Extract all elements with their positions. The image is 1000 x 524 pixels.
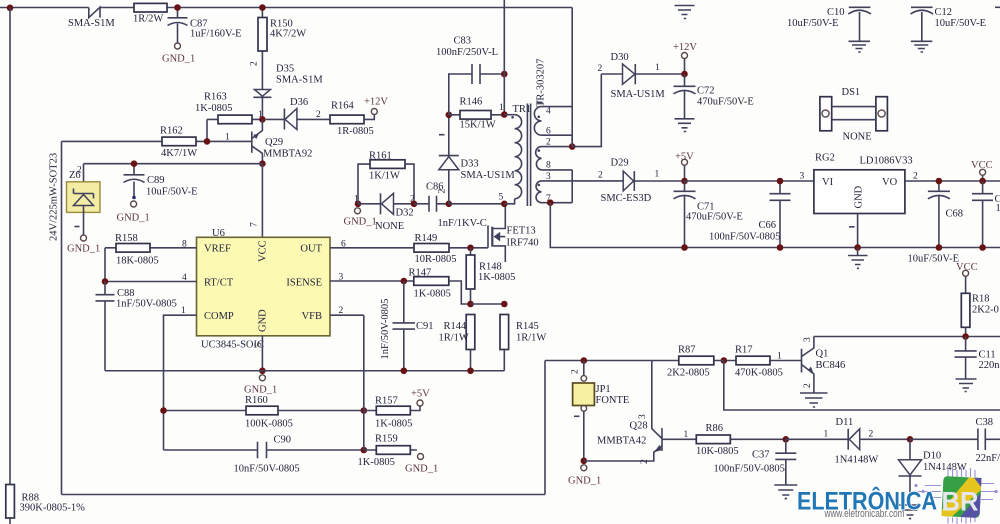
svg-text:OUT: OUT xyxy=(300,244,322,255)
connector DS1 NONE xyxy=(820,87,888,143)
ground GND_1 at R159 xyxy=(405,454,438,475)
junction R162/R163 xyxy=(204,138,211,145)
diode D10 1N4148W xyxy=(899,439,967,518)
junction TR1 pins 2/6 node xyxy=(569,143,576,150)
junction C68 bottom xyxy=(936,244,943,251)
svg-text:4K7/1W: 4K7/1W xyxy=(161,148,197,159)
capacitor C38 22nF xyxy=(910,417,1000,464)
svg-text:LD1086V33: LD1086V33 xyxy=(860,156,913,167)
svg-text:GND_1: GND_1 xyxy=(568,476,601,487)
svg-text:R158: R158 xyxy=(115,233,138,244)
resistor R17 470K-0805 xyxy=(724,345,802,379)
regulator RG2 LD1086V33 xyxy=(800,153,919,248)
svg-text:R163: R163 xyxy=(204,92,227,103)
capacitor C67 at right edge xyxy=(972,181,1000,248)
resistor R161 1K/1W xyxy=(354,151,415,205)
svg-text:1R/2W: 1R/2W xyxy=(133,14,163,25)
svg-text:2K2-0805: 2K2-0805 xyxy=(667,368,710,379)
resistor R148 1K-0805 xyxy=(466,248,515,304)
svg-text:JP1: JP1 xyxy=(596,384,611,395)
wire Q29 to U6 VCC pin 7 xyxy=(261,164,263,238)
svg-text:R145: R145 xyxy=(516,321,539,332)
junction +5V node xyxy=(681,178,688,185)
svg-text:3: 3 xyxy=(546,172,551,182)
junction JP1 top xyxy=(581,357,588,364)
svg-text:470K-0805: 470K-0805 xyxy=(735,368,783,379)
svg-text:1N4148W: 1N4148W xyxy=(835,455,879,466)
svg-text:+12V: +12V xyxy=(364,97,388,108)
svg-text:C89: C89 xyxy=(147,175,165,186)
svg-text:GND_1: GND_1 xyxy=(244,385,277,396)
svg-text:+5V: +5V xyxy=(675,152,694,163)
capacitor C71 470uF/50V-E xyxy=(674,181,743,248)
svg-text:TR-303207: TR-303207 xyxy=(536,59,547,107)
svg-text:VCC: VCC xyxy=(971,160,993,171)
svg-text:2: 2 xyxy=(803,383,813,388)
wire RG2 output row xyxy=(905,180,1000,182)
svg-text:3: 3 xyxy=(339,273,344,283)
ground under C72 xyxy=(675,119,695,132)
svg-text:SMA-US1M: SMA-US1M xyxy=(461,170,516,181)
svg-text:10uF/50V-E: 10uF/50V-E xyxy=(146,187,198,198)
svg-text:2: 2 xyxy=(571,369,581,374)
svg-text:FONTE: FONTE xyxy=(596,395,630,406)
svg-text:R18: R18 xyxy=(972,294,990,305)
svg-text:R147: R147 xyxy=(409,268,432,279)
resistor R162 4K7/1W xyxy=(62,126,252,160)
diode D33 SMA-US1M xyxy=(439,115,516,204)
svg-text:470uF/50V-E: 470uF/50V-E xyxy=(686,212,743,223)
svg-text:15K/1W: 15K/1W xyxy=(460,120,496,131)
junction R150 top xyxy=(259,4,266,11)
capacitor C10 10uF/50V-E xyxy=(787,7,871,52)
junction RG2 gnd bottom xyxy=(854,244,861,251)
svg-text:2: 2 xyxy=(339,306,344,316)
svg-text:8: 8 xyxy=(182,240,187,250)
capacitor C89 xyxy=(117,164,198,224)
wire bottom long bus xyxy=(62,494,546,496)
svg-text:1uF/160V-E: 1uF/160V-E xyxy=(190,29,242,40)
svg-text:D36: D36 xyxy=(290,97,308,108)
junction Q29 collector node xyxy=(259,160,266,167)
wire U6 GND pin 5 down xyxy=(261,336,263,371)
junction ISENSE/C91 xyxy=(401,278,408,285)
junction R148/R144 node xyxy=(467,301,474,308)
junction R149/R148 gate node xyxy=(467,245,474,252)
svg-text:R144: R144 xyxy=(444,321,468,332)
svg-text:22nF/: 22nF/ xyxy=(976,453,1000,464)
svg-text:2: 2 xyxy=(250,61,260,66)
junction +12V node xyxy=(681,71,688,78)
diode D30 SMA-US1M xyxy=(598,52,685,100)
svg-text:R149: R149 xyxy=(415,233,438,244)
svg-text:VREF: VREF xyxy=(204,244,231,255)
wire R163 left to R162 junction xyxy=(206,119,208,141)
diode D34 top-left (cut by edge) xyxy=(89,7,100,17)
junction R87/R17 node xyxy=(721,357,728,364)
junction top-left corner xyxy=(7,5,14,12)
svg-text:IRF740: IRF740 xyxy=(507,238,539,249)
svg-text:VCC: VCC xyxy=(956,262,978,273)
wire left vertical rail xyxy=(9,8,11,524)
svg-text:2: 2 xyxy=(640,459,650,464)
resistor R159 1K-0805 xyxy=(358,434,418,469)
svg-text:R161: R161 xyxy=(369,151,392,162)
svg-text:C68: C68 xyxy=(946,209,964,220)
junction D32 anode node xyxy=(355,201,362,208)
svg-text:3: 3 xyxy=(800,172,805,182)
svg-text:VI: VI xyxy=(822,177,834,188)
svg-text:1K-0805: 1K-0805 xyxy=(478,272,515,283)
capacitor C88 1nF/50V-0805 xyxy=(96,282,177,371)
ground GND_1 under JP1 xyxy=(568,465,601,487)
wire C89 row to Q29 xyxy=(84,163,263,165)
svg-text:2: 2 xyxy=(869,430,874,440)
wire U6 pin 3 ISENSE row xyxy=(330,280,414,282)
capacitor C72 470uF/50V-E xyxy=(674,74,754,119)
transistor Q28 MMBTA42 xyxy=(584,361,662,465)
junction RT/CT node xyxy=(102,278,109,285)
svg-text:SMC-ES3D: SMC-ES3D xyxy=(601,193,652,204)
watermark ELETRONICA BR logo xyxy=(797,467,998,524)
svg-text:MMBTA42: MMBTA42 xyxy=(597,436,646,447)
svg-text:10nF/50V-0805: 10nF/50V-0805 xyxy=(234,464,300,475)
junction C66 bottom xyxy=(777,244,784,251)
svg-text:D35: D35 xyxy=(276,64,294,75)
svg-text:NONE: NONE xyxy=(375,221,404,232)
svg-text:COMP: COMP xyxy=(204,311,234,322)
svg-text:2: 2 xyxy=(913,172,918,182)
svg-text:R87: R87 xyxy=(678,345,696,356)
svg-text:6: 6 xyxy=(341,240,346,250)
svg-text:18K-0805: 18K-0805 xyxy=(116,256,159,267)
svg-text:C37: C37 xyxy=(752,450,770,461)
svg-text:NONE: NONE xyxy=(843,132,872,143)
svg-text:GND: GND xyxy=(854,185,865,208)
svg-text:D33: D33 xyxy=(461,159,479,170)
wire C86 node to TR1 pin5 xyxy=(449,203,505,205)
resistor R164 1R-0805 xyxy=(330,101,374,138)
wire R158 left down to RT/CT node xyxy=(104,248,106,282)
power VCC terminal at R18 xyxy=(956,262,978,293)
wire left vertical x61 xyxy=(61,141,63,494)
op-amp U6 UC3845-SOIC controller xyxy=(197,228,331,351)
svg-text:SMA-S1M: SMA-S1M xyxy=(68,18,115,29)
svg-text:+12V: +12V xyxy=(673,42,697,53)
svg-text:1R/1W: 1R/1W xyxy=(439,333,469,344)
svg-text:220n: 220n xyxy=(979,360,1000,371)
svg-text:24V/225mW-SOT23: 24V/225mW-SOT23 xyxy=(49,153,60,241)
svg-text:1R-0805: 1R-0805 xyxy=(337,126,374,137)
transistor FET13 IRF740 xyxy=(488,204,539,262)
diode D29 SMC-ES3D xyxy=(598,158,685,205)
svg-text:R146: R146 xyxy=(460,97,483,108)
svg-text:100nF/250V-L: 100nF/250V-L xyxy=(436,47,498,58)
svg-text:GND_1: GND_1 xyxy=(117,213,150,224)
wire pin2 node to D30 xyxy=(572,74,601,147)
svg-text:DS1: DS1 xyxy=(842,87,861,98)
resistor R1A 1R/2W on top rail xyxy=(133,3,167,24)
resistor R149 10R-0805 xyxy=(414,233,488,265)
svg-text:5: 5 xyxy=(254,342,264,347)
svg-text:GND: GND xyxy=(258,309,269,332)
svg-text:1K/1W: 1K/1W xyxy=(369,171,400,182)
capacitor C11 220nF xyxy=(955,337,1000,392)
svg-text:C90: C90 xyxy=(274,435,292,446)
svg-text:C38: C38 xyxy=(976,417,994,428)
capacitor C87 xyxy=(168,8,242,50)
svg-text:7: 7 xyxy=(250,222,260,227)
wire U6 pin 1 COMP xyxy=(164,315,197,450)
power +12V terminal at R164 xyxy=(364,97,388,115)
capacitor C37 100nF/50V-0805 xyxy=(714,439,798,498)
junction TR1 pin 1 xyxy=(501,111,508,118)
wire top rail drop to TR1 pin4 xyxy=(571,8,573,147)
junction JP1 bottom / Q28 emitter xyxy=(581,458,588,465)
svg-text:SMA-S1M: SMA-S1M xyxy=(276,75,323,86)
svg-text:GND_1: GND_1 xyxy=(344,217,377,228)
svg-text:SMA-US1M: SMA-US1M xyxy=(611,89,666,100)
svg-text:2: 2 xyxy=(316,110,321,120)
junction R18/C11 node xyxy=(962,333,969,340)
capacitor C91 1nF/50V-0805 xyxy=(380,281,434,371)
power +5V terminal at R157 xyxy=(411,389,430,407)
resistor R144 1R/1W xyxy=(439,315,475,371)
svg-text:1: 1 xyxy=(996,203,1000,214)
resistor R86 10K-0805 xyxy=(662,423,786,457)
ground symbol top right of transformer xyxy=(675,6,695,19)
svg-text:C12: C12 xyxy=(935,7,953,18)
transformer TR1 TR-303207 xyxy=(499,59,624,206)
power +12V terminal xyxy=(673,42,697,74)
svg-text:GND_1: GND_1 xyxy=(162,54,195,65)
svg-text:1nF/50V-0805: 1nF/50V-0805 xyxy=(380,299,391,360)
resistor R147 1K-0805 xyxy=(409,268,471,305)
wire feedback row to JP1 xyxy=(545,360,651,362)
svg-text:4: 4 xyxy=(546,107,551,117)
wire VFB column xyxy=(363,315,365,450)
svg-text:FET13: FET13 xyxy=(507,226,536,237)
capacitor C86 1nF/1KV-C xyxy=(414,182,487,230)
wire R87 node down to right bus xyxy=(724,361,1000,411)
capacitor C66 100nF/50V-0805 xyxy=(709,181,791,248)
svg-text:RT/CT: RT/CT xyxy=(204,277,234,288)
svg-text:1nF/1KV-C: 1nF/1KV-C xyxy=(438,218,487,229)
junction TR1 pin 5 / FET drain node xyxy=(501,201,508,208)
junction C87 top xyxy=(174,4,181,11)
svg-text:4: 4 xyxy=(182,273,187,283)
svg-text:D29: D29 xyxy=(611,158,629,169)
svg-text:GND_1: GND_1 xyxy=(67,244,100,255)
svg-text:10uF/50V-E: 10uF/50V-E xyxy=(935,18,987,29)
wire U6 pin 4 RT/CT xyxy=(105,281,197,283)
svg-text:390K-0805-1%: 390K-0805-1% xyxy=(20,503,86,514)
capacitor C12 10uF/50V-E xyxy=(911,7,987,52)
svg-text:+5V: +5V xyxy=(411,389,430,400)
resistor R160 100K-0805 xyxy=(245,395,364,430)
junction C89 top xyxy=(131,160,138,167)
wire bottom bus under U6 xyxy=(105,370,504,372)
svg-text:BC846: BC846 xyxy=(816,360,846,371)
wire Q1 collector row xyxy=(814,336,1000,338)
wire long vertical from bottom bus xyxy=(544,361,546,495)
svg-text:1: 1 xyxy=(655,63,660,73)
junction R161 right / C86 left xyxy=(411,201,418,208)
svg-text:1: 1 xyxy=(181,306,186,316)
svg-text:1nF/50V-0805: 1nF/50V-0805 xyxy=(116,299,177,310)
svg-text:4K7/2W: 4K7/2W xyxy=(270,29,306,40)
svg-text:10R-0805: 10R-0805 xyxy=(415,254,457,265)
svg-text:Q28: Q28 xyxy=(630,421,648,432)
junction C68 top xyxy=(936,178,943,185)
svg-text:BR: BR xyxy=(942,487,979,517)
svg-text:C66: C66 xyxy=(759,220,777,231)
svg-text:VO: VO xyxy=(882,177,898,188)
svg-text:R164: R164 xyxy=(331,101,355,112)
svg-text:C83: C83 xyxy=(454,36,472,47)
diode D36 SMA-S1M xyxy=(266,97,330,130)
svg-text:5: 5 xyxy=(499,193,504,203)
svg-text:2: 2 xyxy=(598,64,603,74)
svg-text:1: 1 xyxy=(499,103,504,113)
resistor R88 390K-0805-1% xyxy=(6,485,85,519)
svg-text:R148: R148 xyxy=(479,262,502,273)
svg-text:C88: C88 xyxy=(117,288,135,299)
svg-text:1: 1 xyxy=(824,430,829,440)
svg-text:1: 1 xyxy=(225,133,230,143)
svg-text:TR1: TR1 xyxy=(513,104,532,115)
svg-text:10uF/50V-E: 10uF/50V-E xyxy=(908,254,960,265)
svg-text:100nF/50V-0805: 100nF/50V-0805 xyxy=(714,464,785,475)
svg-text:1N4148W: 1N4148W xyxy=(923,462,967,473)
svg-text:1K-0805: 1K-0805 xyxy=(375,419,412,430)
resistor R145 1R/1W xyxy=(500,315,546,371)
svg-text:2: 2 xyxy=(77,166,82,176)
junction node D35/D36/R163/Q29 xyxy=(259,116,266,123)
transistor Q1 BC846 xyxy=(802,337,846,393)
svg-text:www.eletronicabr.com: www.eletronicabr.com xyxy=(824,508,905,520)
junction R160/VFB column xyxy=(361,407,368,414)
svg-text:R157: R157 xyxy=(375,396,398,407)
svg-text:1: 1 xyxy=(777,352,782,362)
svg-text:470uF/50V-E: 470uF/50V-E xyxy=(697,97,754,108)
resistor R146 15K/1W xyxy=(449,97,505,131)
zener Z6 24V/225mW-SOT23 xyxy=(49,153,101,255)
resistor R150 4K7/2W xyxy=(250,8,307,90)
svg-text:Q1: Q1 xyxy=(816,349,829,360)
wire U6 pin 2 VFB xyxy=(330,314,364,316)
svg-text:2: 2 xyxy=(438,189,448,194)
junction VCC node xyxy=(979,178,986,185)
svg-text:6: 6 xyxy=(546,127,551,137)
svg-text:D10: D10 xyxy=(923,451,941,462)
wire R148 node to R145 node xyxy=(471,303,505,305)
wire top rail xyxy=(0,7,572,9)
svg-text:R86: R86 xyxy=(706,423,724,434)
junction C83 right / primary top column xyxy=(501,71,508,78)
wire stub top right edge xyxy=(995,6,1000,8)
ground GND_1 at U6 pin5 xyxy=(244,375,277,396)
connector JP1 FONTE xyxy=(571,361,630,461)
power +5V terminal xyxy=(675,152,694,182)
svg-text:2: 2 xyxy=(546,138,551,148)
svg-text:1: 1 xyxy=(655,170,660,180)
junction R144 bottom xyxy=(467,367,474,374)
wire COMP feedback row xyxy=(164,410,247,412)
svg-text:GND_1: GND_1 xyxy=(405,464,438,475)
svg-text:D30: D30 xyxy=(611,52,629,63)
junction C66 top xyxy=(777,178,784,185)
svg-text:R162: R162 xyxy=(160,126,183,137)
svg-text:3: 3 xyxy=(803,337,813,342)
svg-text:1K-0805: 1K-0805 xyxy=(195,103,232,114)
ground GND_1 at D32 xyxy=(344,208,377,228)
svg-text:1K-0805: 1K-0805 xyxy=(414,289,451,300)
svg-text:10K-0805: 10K-0805 xyxy=(696,446,739,457)
capacitor C83 100nF/250V-L xyxy=(436,36,504,115)
svg-text:MMBTA92: MMBTA92 xyxy=(263,149,312,160)
svg-text:VFB: VFB xyxy=(302,311,322,322)
power VCC terminal right xyxy=(971,160,993,181)
capacitor C68 10uF/50V-E xyxy=(908,181,964,265)
ground under RG2 xyxy=(848,248,868,269)
capacitor C90 10nF/50V-0805 xyxy=(234,435,300,475)
resistor R163 1K-0805 xyxy=(195,92,261,124)
svg-text:10uF/50V-E: 10uF/50V-E xyxy=(787,18,839,29)
junction C91 bottom xyxy=(401,367,408,374)
svg-text:8: 8 xyxy=(546,161,551,171)
svg-text:D11: D11 xyxy=(836,417,854,428)
transistor Q29 MMBTA92 xyxy=(252,119,313,163)
svg-text:R159: R159 xyxy=(375,434,398,445)
junction TR1 pin 7 node xyxy=(547,199,554,206)
svg-text:2K2-0: 2K2-0 xyxy=(972,305,999,316)
junction C67 bottom xyxy=(979,244,986,251)
ground under Q1 xyxy=(800,393,828,407)
svg-text:C91: C91 xyxy=(416,321,434,332)
diode D11 1N4148W xyxy=(786,417,910,466)
junction D33/R146 xyxy=(446,112,453,119)
svg-text:C72: C72 xyxy=(697,86,715,97)
wire +5V rail to regulator xyxy=(685,180,814,182)
junction COMP column xyxy=(160,407,167,414)
svg-text:VCC: VCC xyxy=(258,240,269,262)
svg-text:RG2: RG2 xyxy=(815,153,835,164)
svg-text:R160: R160 xyxy=(245,395,268,406)
svg-text:2: 2 xyxy=(598,171,603,181)
diode D32 NONE xyxy=(358,193,414,232)
svg-text:1K-0805: 1K-0805 xyxy=(358,457,395,468)
svg-text:100K-0805: 100K-0805 xyxy=(245,419,293,430)
junction C86/D33/FET drain node xyxy=(446,201,453,208)
junction C90/VFB column xyxy=(361,447,368,454)
svg-text:R17: R17 xyxy=(735,345,753,356)
svg-text:U6: U6 xyxy=(212,228,225,239)
wire C90 row xyxy=(164,449,364,451)
wire U6 pin 6 OUT row xyxy=(330,247,414,249)
svg-text:Q29: Q29 xyxy=(265,137,283,148)
svg-text:D32: D32 xyxy=(396,208,414,219)
resistor R18 2K2-0805 xyxy=(961,293,999,336)
resistor R87 2K2-0805 xyxy=(651,345,724,379)
diode D35 SMA-S1M xyxy=(253,64,323,121)
junction U6 GND node xyxy=(259,367,266,374)
junction R86/C37/D11 node xyxy=(783,436,790,443)
svg-text:1: 1 xyxy=(684,430,689,440)
svg-text:ISENSE: ISENSE xyxy=(286,277,322,288)
svg-text:100nF/50V-0805: 100nF/50V-0805 xyxy=(709,232,780,243)
junction R145 top node xyxy=(501,301,508,308)
